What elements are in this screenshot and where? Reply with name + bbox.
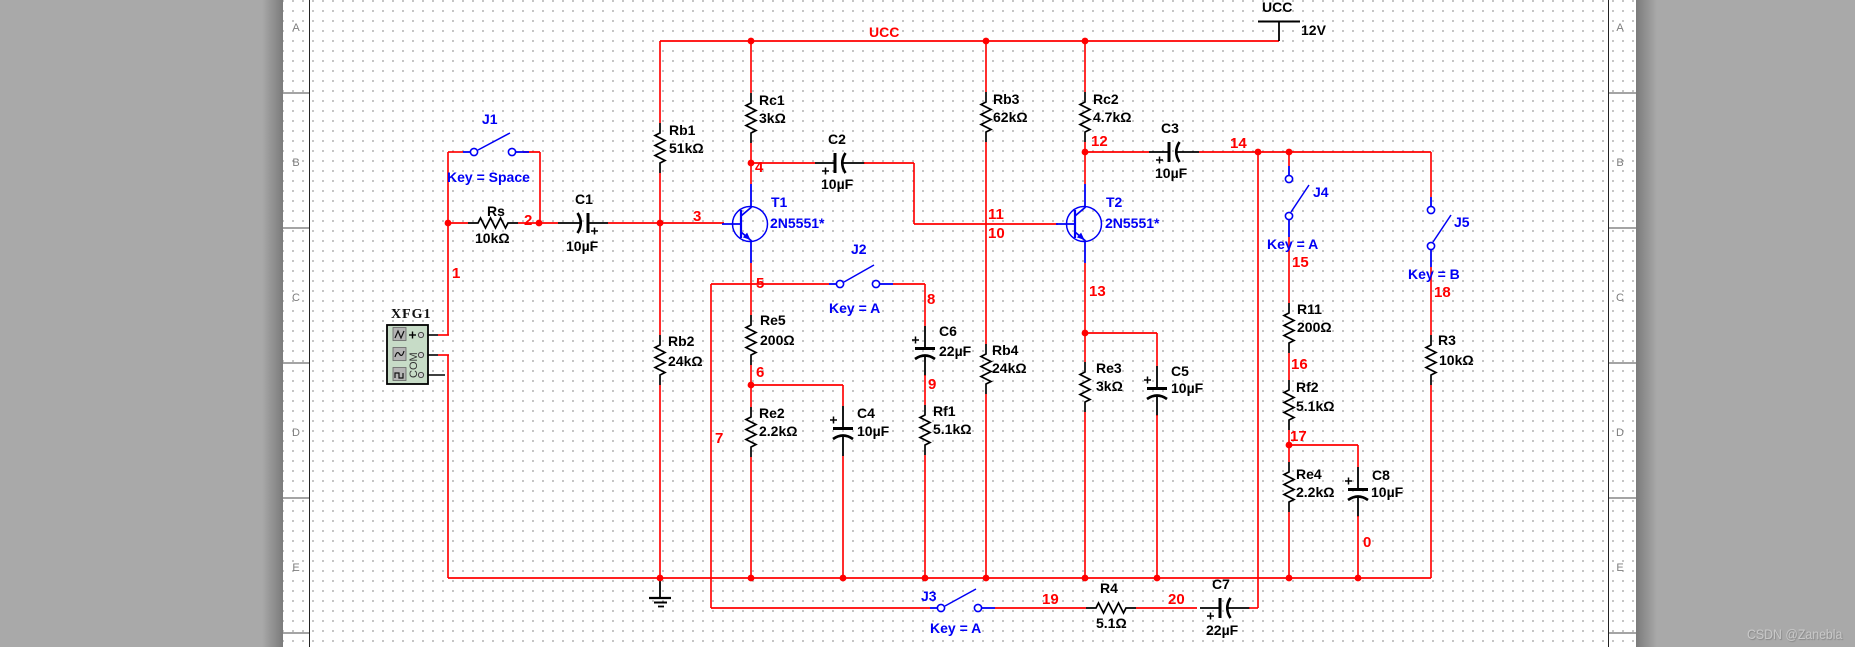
svg-text:C: C [292, 292, 300, 304]
svg-text:5: 5 [756, 275, 764, 292]
svg-text:6: 6 [756, 364, 764, 381]
svg-text:C4: C4 [857, 405, 875, 421]
svg-text:D: D [1616, 427, 1624, 439]
svg-text:15: 15 [1292, 254, 1309, 271]
svg-text:D: D [292, 427, 300, 439]
svg-text:C: C [1616, 292, 1624, 304]
svg-text:C7: C7 [1212, 576, 1230, 592]
svg-text:10: 10 [988, 225, 1005, 242]
svg-text:4.7kΩ: 4.7kΩ [1093, 109, 1131, 125]
svg-text:E: E [1616, 562, 1623, 574]
svg-text:Re4: Re4 [1296, 466, 1322, 482]
svg-text:C3: C3 [1161, 120, 1179, 136]
svg-text:24kΩ: 24kΩ [992, 360, 1027, 376]
svg-text:A: A [1616, 22, 1624, 34]
svg-text:9: 9 [928, 376, 936, 393]
svg-text:51kΩ: 51kΩ [669, 140, 704, 156]
svg-text:XFG1: XFG1 [391, 307, 432, 322]
svg-text:10µF: 10µF [1371, 484, 1404, 500]
svg-text:Rf2: Rf2 [1296, 379, 1319, 395]
svg-text:12V: 12V [1301, 22, 1327, 38]
svg-text:R3: R3 [1438, 332, 1456, 348]
svg-text:5.1kΩ: 5.1kΩ [1296, 398, 1334, 414]
svg-text:11: 11 [988, 206, 1004, 223]
svg-text:200Ω: 200Ω [1297, 319, 1332, 335]
svg-text:Re5: Re5 [760, 312, 786, 328]
svg-text:200Ω: 200Ω [760, 332, 795, 348]
svg-text:10µF: 10µF [1171, 380, 1204, 396]
svg-text:22µF: 22µF [939, 343, 972, 359]
svg-text:0: 0 [1363, 534, 1371, 551]
svg-text:10kΩ: 10kΩ [475, 230, 510, 246]
svg-text:14: 14 [1230, 135, 1247, 152]
svg-text:UCC: UCC [869, 24, 899, 40]
svg-text:Key = Space: Key = Space [447, 169, 530, 185]
svg-text:10µF: 10µF [857, 423, 890, 439]
svg-text:Rc1: Rc1 [759, 92, 785, 108]
svg-text:J1: J1 [482, 111, 498, 127]
svg-text:8: 8 [927, 291, 935, 308]
svg-text:3: 3 [693, 208, 701, 225]
svg-text:UCC: UCC [1262, 0, 1292, 15]
svg-text:62kΩ: 62kΩ [993, 109, 1028, 125]
svg-text:Key = A: Key = A [930, 620, 981, 636]
svg-text:E: E [292, 562, 299, 574]
svg-text:22µF: 22µF [1206, 622, 1239, 638]
svg-text:Key = A: Key = A [829, 300, 880, 316]
svg-text:10µF: 10µF [566, 238, 599, 254]
svg-text:Rb1: Rb1 [669, 122, 696, 138]
svg-text:R11: R11 [1297, 301, 1322, 317]
svg-text:C2: C2 [828, 131, 846, 147]
svg-text:10µF: 10µF [821, 176, 854, 192]
svg-text:B: B [292, 157, 299, 169]
svg-text:C6: C6 [939, 323, 957, 339]
svg-text:10kΩ: 10kΩ [1439, 352, 1474, 368]
svg-text:1: 1 [452, 265, 460, 282]
svg-text:16: 16 [1291, 356, 1308, 373]
svg-text:7: 7 [715, 430, 723, 447]
svg-text:3kΩ: 3kΩ [759, 110, 786, 126]
svg-text:C1: C1 [575, 191, 593, 207]
svg-text:3kΩ: 3kΩ [1096, 378, 1123, 394]
svg-text:C8: C8 [1372, 467, 1390, 483]
svg-text:17: 17 [1290, 428, 1307, 445]
svg-text:C5: C5 [1171, 363, 1189, 379]
svg-text:J3: J3 [921, 588, 937, 604]
svg-text:Key = A: Key = A [1267, 236, 1318, 252]
svg-text:13: 13 [1089, 283, 1106, 300]
svg-text:2: 2 [524, 212, 532, 229]
svg-text:J5: J5 [1454, 214, 1470, 230]
svg-text:4: 4 [755, 159, 764, 176]
svg-text:12: 12 [1091, 133, 1108, 150]
svg-text:R4: R4 [1100, 580, 1118, 596]
svg-text:2.2kΩ: 2.2kΩ [1296, 484, 1334, 500]
svg-text:A: A [292, 22, 300, 34]
svg-text:T2: T2 [1106, 194, 1123, 210]
svg-text:J2: J2 [851, 241, 867, 257]
svg-text:Rb3: Rb3 [993, 91, 1020, 107]
svg-text:19: 19 [1042, 591, 1059, 608]
svg-text:Key = B: Key = B [1408, 266, 1460, 282]
svg-text:20: 20 [1168, 591, 1185, 608]
svg-text:T1: T1 [771, 194, 788, 210]
svg-text:10µF: 10µF [1155, 165, 1188, 181]
svg-text:2N5551*: 2N5551* [770, 215, 825, 231]
svg-text:Rb2: Rb2 [668, 333, 695, 349]
svg-text:B: B [1616, 157, 1623, 169]
svg-text:Rf1: Rf1 [933, 403, 956, 419]
svg-text:Rs: Rs [487, 203, 505, 219]
svg-text:Rc2: Rc2 [1093, 91, 1119, 107]
svg-text:2.2kΩ: 2.2kΩ [759, 423, 797, 439]
svg-text:Re3: Re3 [1096, 360, 1122, 376]
svg-text:J4: J4 [1313, 184, 1329, 200]
svg-text:Rb4: Rb4 [992, 342, 1019, 358]
svg-text:5.1Ω: 5.1Ω [1096, 615, 1127, 631]
svg-text:2N5551*: 2N5551* [1105, 215, 1160, 231]
svg-text:18: 18 [1434, 284, 1451, 301]
svg-text:5.1kΩ: 5.1kΩ [933, 421, 971, 437]
svg-text:24kΩ: 24kΩ [668, 353, 703, 369]
svg-text:Re2: Re2 [759, 405, 785, 421]
